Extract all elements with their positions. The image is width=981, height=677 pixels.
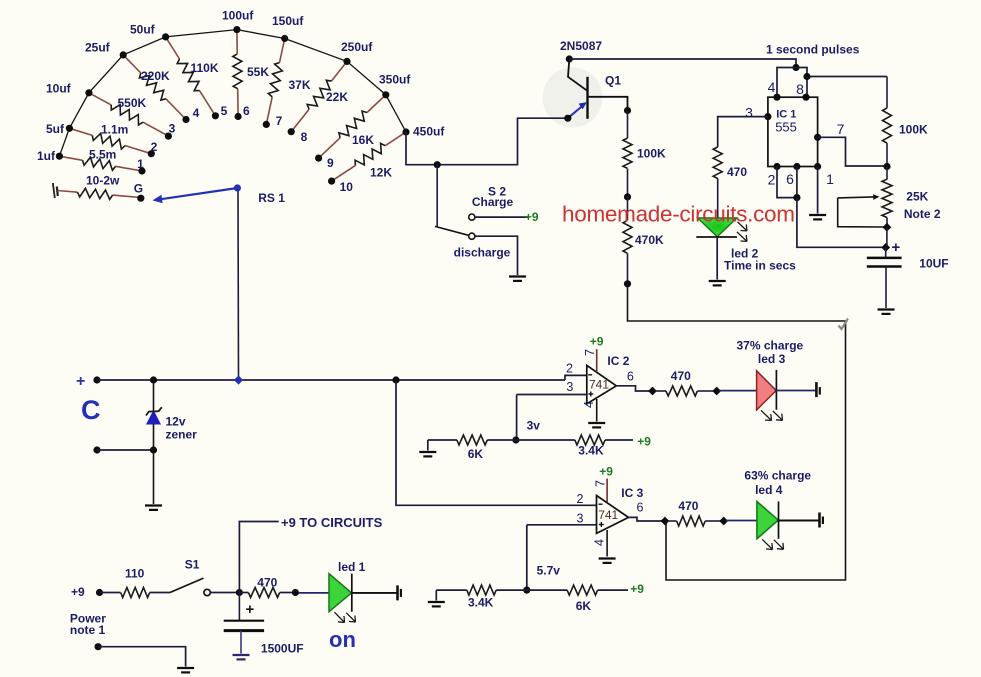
- svg-text:7: 7: [583, 349, 597, 356]
- resistor 470K: [623, 197, 664, 284]
- pin 4: [768, 79, 781, 101]
- node 150uf tap: [281, 35, 288, 42]
- resistor 110: [100, 567, 171, 598]
- node led4 anode: [719, 517, 728, 526]
- svg-text:6: 6: [243, 104, 250, 118]
- svg-text:+: +: [892, 239, 901, 256]
- node 3: [165, 122, 176, 140]
- node 5: [212, 104, 228, 119]
- svg-text:37K: 37K: [289, 78, 311, 92]
- resistor 12K (range 10): [332, 132, 406, 181]
- svg-text:2: 2: [768, 172, 776, 188]
- node 10uf tap: [85, 89, 92, 96]
- node IC3 branch: [392, 376, 399, 383]
- svg-text:470K: 470K: [635, 233, 664, 247]
- svg-text:C: C: [81, 395, 101, 425]
- resistor 6K (5.7v divider): [527, 582, 645, 613]
- svg-text:6: 6: [786, 171, 794, 187]
- label 150uf: [272, 14, 304, 28]
- resistor 470 (led2): [713, 147, 747, 218]
- node 350uf tap: [382, 91, 389, 98]
- label 50uf: [130, 23, 156, 37]
- wire IC3 pin3: [527, 525, 597, 590]
- wire pin 3 to 470: [718, 117, 768, 147]
- label 250uf: [341, 40, 373, 54]
- node power note terminal: [95, 643, 102, 650]
- svg-text:1.1m: 1.1m: [101, 123, 128, 137]
- wire pin 2 tie: [777, 167, 797, 198]
- node 25uf tap: [120, 51, 127, 58]
- label 63% charge: [744, 469, 811, 498]
- node C minus: [93, 446, 100, 453]
- node 10: [328, 178, 353, 195]
- resistor 1.1m (range 2): [69, 123, 151, 154]
- label on: [329, 627, 356, 652]
- node 4: [182, 106, 199, 123]
- node led1 anode: [292, 589, 299, 596]
- svg-text:250uf: 250uf: [341, 40, 373, 54]
- svg-text:note 1: note 1: [70, 623, 106, 637]
- svg-text:25K: 25K: [906, 190, 928, 204]
- node zener top: [150, 376, 157, 383]
- label led 2: [724, 247, 796, 273]
- wire C rail to IC3 pin2: [396, 380, 597, 505]
- wire pin 1 to ground: [817, 167, 819, 214]
- node C plus: [93, 376, 100, 383]
- resistor 16K (range 9): [319, 95, 386, 158]
- svg-text:RS 1: RS 1: [258, 191, 285, 205]
- node 25K bottom: [883, 223, 892, 232]
- svg-text:555: 555: [775, 120, 797, 135]
- wire led3 cathode: [776, 390, 815, 392]
- label 25uf: [85, 41, 111, 55]
- resistor 100K (timing): [883, 77, 929, 167]
- resistor 10-2w: [58, 174, 142, 200]
- label +9 power: [71, 585, 85, 599]
- led 3: [757, 370, 783, 421]
- label 1uf: [37, 149, 56, 163]
- label 37% charge: [737, 339, 804, 367]
- wire supply to pin 4: [777, 68, 796, 98]
- node G: [134, 182, 145, 202]
- svg-text:3.4K: 3.4K: [578, 444, 604, 458]
- node 1uf tap: [56, 153, 63, 160]
- node +9 circuits junction: [236, 589, 243, 596]
- pin 2: [768, 163, 781, 188]
- pin 6: [786, 163, 800, 187]
- svg-text:55K: 55K: [247, 65, 269, 79]
- node 7: [263, 114, 283, 128]
- wire S1 to junction: [211, 592, 237, 594]
- switch S1: [170, 558, 210, 596]
- svg-text:550K: 550K: [118, 96, 147, 110]
- node 9: [315, 155, 334, 171]
- ground pin 1: [809, 215, 826, 219]
- node 8: [288, 128, 308, 144]
- label 450uf: [413, 125, 445, 139]
- pin 7: [814, 121, 845, 141]
- transistor Q1: [568, 59, 628, 119]
- svg-text:63% charge: 63% charge: [744, 469, 811, 483]
- svg-text:+9: +9: [525, 210, 539, 224]
- node S2 junction: [434, 161, 441, 168]
- svg-text:S1: S1: [185, 558, 200, 572]
- wire 3.4K to ground: [435, 590, 437, 600]
- node 50uf tap: [162, 33, 169, 40]
- node led3 anode: [712, 387, 721, 396]
- node 1: [137, 157, 145, 175]
- node IC2 out: [648, 387, 657, 396]
- wire 470K bottom loop to IC3 output: [628, 284, 846, 580]
- node 5.7v: [523, 587, 530, 594]
- svg-text:3: 3: [169, 122, 176, 136]
- wire to led1: [299, 592, 330, 594]
- svg-text:16K: 16K: [352, 133, 374, 147]
- svg-text:470: 470: [671, 369, 691, 383]
- svg-text:450uf: 450uf: [413, 125, 445, 139]
- svg-text:50uf: 50uf: [130, 23, 156, 37]
- svg-text:led 3: led 3: [758, 352, 786, 366]
- watermark homemade-circuits.com: [562, 202, 795, 227]
- resistor 470 (led4): [668, 499, 721, 526]
- svg-text:110K: 110K: [191, 61, 219, 75]
- stray check mark: [839, 319, 849, 330]
- svg-text:3v: 3v: [527, 419, 541, 433]
- svg-text:37% charge: 37% charge: [737, 339, 804, 353]
- svg-text:470: 470: [257, 576, 277, 590]
- node 6: [235, 104, 250, 120]
- wire +9 to circuits: [239, 515, 382, 593]
- svg-text:zener: zener: [166, 428, 198, 442]
- svg-text:22K: 22K: [326, 90, 348, 104]
- resistor 110K (range 5): [166, 37, 219, 116]
- node Q1 base top of 100K: [624, 107, 631, 114]
- termination led3: [816, 382, 819, 397]
- node 100K/470K junction: [624, 193, 631, 200]
- wire supply to pin 8 and 100K: [796, 68, 887, 98]
- svg-text:4: 4: [193, 106, 200, 120]
- resistor 550K (range 3): [89, 93, 168, 136]
- svg-text:on: on: [329, 627, 356, 652]
- resistor 22K (range 8): [291, 61, 348, 131]
- svg-text:8: 8: [796, 81, 804, 97]
- wire to led4: [726, 520, 757, 522]
- node 3v: [512, 436, 519, 443]
- node 2: [148, 140, 158, 157]
- svg-text:10: 10: [340, 180, 354, 194]
- svg-text:470: 470: [678, 499, 698, 513]
- node zener bottom: [150, 446, 157, 453]
- wire to led3: [719, 390, 757, 392]
- node RS1 rail junction: [234, 375, 243, 384]
- svg-text:8: 8: [301, 130, 308, 144]
- op-amp-ic IC 1 555 box: [768, 97, 818, 166]
- svg-text:6: 6: [637, 501, 644, 515]
- svg-text:Q1: Q1: [605, 74, 621, 88]
- node 5uf tap: [66, 125, 73, 132]
- label Power note 1: [70, 612, 106, 638]
- svg-text:100K: 100K: [637, 147, 666, 161]
- resistor 3.4K (3v divider): [516, 435, 651, 458]
- svg-text:Time in secs: Time in secs: [724, 259, 796, 273]
- wire 6K to ground: [427, 440, 429, 451]
- svg-text:+: +: [76, 373, 85, 390]
- svg-text:G: G: [134, 182, 143, 196]
- svg-text:led 4: led 4: [755, 483, 783, 497]
- wire led1 cathode: [352, 592, 397, 594]
- pin 7 IC3 supply: [594, 465, 614, 503]
- node Q1 collector: [566, 55, 573, 62]
- svg-text:4: 4: [582, 401, 596, 408]
- op-amp IC 3 741: [577, 486, 644, 533]
- svg-text:12K: 12K: [370, 166, 392, 180]
- svg-text:5.5m: 5.5m: [89, 148, 116, 162]
- svg-text:3: 3: [577, 512, 584, 526]
- ground IC3: [599, 559, 616, 563]
- label 3v: [527, 419, 541, 433]
- svg-text:1: 1: [826, 171, 834, 187]
- svg-text:2: 2: [577, 492, 584, 506]
- node 450uf tap: [402, 128, 409, 135]
- label 10uf: [46, 82, 72, 96]
- svg-text:1: 1: [137, 157, 144, 171]
- svg-text:IC 3: IC 3: [621, 486, 643, 500]
- label 350uf: [379, 73, 411, 87]
- label 1 second pulses: [766, 43, 860, 57]
- wire charge contact to +9: [475, 210, 539, 224]
- node IC3 out: [661, 517, 670, 526]
- node timing cap plus: [881, 239, 900, 256]
- svg-text:+9: +9: [637, 435, 651, 449]
- svg-text:discharge: discharge: [454, 246, 511, 260]
- pin 8: [796, 81, 809, 101]
- wire 25K to cap: [886, 227, 888, 247]
- zener diode 12v: [146, 380, 197, 450]
- capacitor 10UF: [867, 248, 949, 309]
- wire S2 pole: [436, 165, 438, 226]
- pin 3: [745, 105, 771, 121]
- svg-text:10uf: 10uf: [46, 82, 72, 96]
- capacitor 1500UF: [224, 593, 304, 656]
- switch S 2: [435, 185, 513, 260]
- node +9 input: [96, 589, 103, 596]
- termination led1: [398, 585, 401, 600]
- resistor 3.4K (5.7v divider): [436, 585, 527, 609]
- wire C minus: [97, 449, 154, 451]
- wire 450uf tap to S2 junction: [406, 132, 437, 165]
- potentiometer 25K: [838, 167, 941, 228]
- pin 4 IC2 ground: [582, 399, 597, 422]
- rotary switch RS 1 wiper: [153, 184, 286, 205]
- svg-text:10UF: 10UF: [919, 257, 948, 271]
- svg-text:5: 5: [221, 104, 228, 118]
- svg-text:10-2w: 10-2w: [86, 174, 120, 188]
- label led 1: [338, 560, 366, 574]
- label 5uf: [46, 122, 65, 136]
- wire led4 cathode: [779, 520, 819, 522]
- svg-text:+: +: [246, 601, 255, 618]
- svg-text:4: 4: [592, 539, 606, 546]
- wire discharge contact to ground: [475, 236, 518, 275]
- svg-text:+9: +9: [599, 465, 613, 479]
- svg-text:3: 3: [745, 105, 753, 121]
- svg-text:9: 9: [327, 156, 334, 170]
- label plus C: [76, 373, 101, 425]
- svg-text:5.7v: 5.7v: [537, 564, 561, 578]
- svg-text:12v: 12v: [166, 415, 186, 429]
- node 100uf tap: [233, 26, 240, 33]
- wire RS1 pole to C+ rail: [237, 189, 240, 380]
- svg-text:6: 6: [627, 370, 634, 384]
- svg-text:6K: 6K: [576, 599, 592, 613]
- svg-text:IC 2: IC 2: [607, 354, 629, 368]
- wire note1 to ground: [98, 647, 186, 667]
- ground 10UF: [878, 310, 895, 314]
- svg-text:1uf: 1uf: [37, 149, 56, 163]
- svg-text:25uf: 25uf: [85, 41, 111, 55]
- ground led2: [709, 281, 726, 285]
- svg-text:+9: +9: [630, 582, 644, 596]
- svg-text:2: 2: [151, 140, 158, 154]
- svg-text:led 1: led 1: [338, 560, 366, 574]
- resistor 470 (led3): [655, 369, 714, 396]
- wire IC3 output: [629, 501, 663, 522]
- transistor body halo: [543, 68, 603, 128]
- resistor 5.5m (range 1): [59, 148, 142, 172]
- svg-text:+9: +9: [590, 335, 604, 349]
- resistor 6K (3v divider): [428, 435, 516, 461]
- wire S2 junction to Q1 emitter: [437, 118, 566, 165]
- svg-text:150uf: 150uf: [272, 14, 304, 28]
- wire arc connecting capacitor range taps: [59, 30, 406, 157]
- svg-text:1500UF: 1500UF: [261, 642, 304, 656]
- wire IC2 pin3: [517, 395, 587, 441]
- svg-text:4: 4: [768, 79, 776, 95]
- ground IC2: [588, 423, 605, 427]
- svg-text:7: 7: [594, 480, 608, 487]
- label 100uf: [222, 9, 254, 23]
- svg-text:5uf: 5uf: [46, 122, 65, 136]
- svg-text:7: 7: [276, 114, 283, 128]
- node pin8 rail: [803, 73, 810, 80]
- resistor 100K (Q1 base upper): [623, 111, 666, 197]
- svg-text:350uf: 350uf: [379, 73, 411, 87]
- svg-text:homemade-circuits.com: homemade-circuits.com: [562, 202, 795, 227]
- node 555 supply: [792, 64, 799, 71]
- ground 1500UF: [233, 655, 250, 659]
- svg-text:220K: 220K: [141, 69, 170, 83]
- wire led2 cathode to ground: [716, 237, 718, 280]
- led 2: [696, 218, 747, 241]
- svg-text:+9: +9: [71, 585, 85, 599]
- svg-text:100uf: 100uf: [222, 9, 254, 23]
- led 1: [329, 574, 356, 623]
- wire IC2 output: [616, 370, 650, 392]
- node Q1 emitter: [564, 115, 571, 122]
- svg-text:1 second pulses: 1 second pulses: [766, 43, 860, 57]
- ground 6K: [419, 452, 436, 456]
- ground discharge: [509, 277, 526, 281]
- resistor 55K (range 6): [233, 30, 270, 117]
- pin 1: [814, 163, 834, 187]
- svg-text:100K: 100K: [899, 123, 928, 137]
- svg-text:2: 2: [566, 362, 573, 376]
- svg-text:3: 3: [566, 380, 573, 394]
- resistor 470 (led1): [239, 576, 292, 598]
- wire pins 2-6 to timing cap: [797, 198, 884, 248]
- wire pin 6 tie: [796, 167, 798, 198]
- node 250uf tap: [343, 58, 350, 65]
- pin 4 IC3 ground: [592, 530, 607, 557]
- svg-text:2N5087: 2N5087: [560, 39, 602, 53]
- label 2N5087: [560, 39, 602, 53]
- node 470K bottom: [624, 280, 631, 287]
- pin 7 IC2 supply: [583, 335, 604, 373]
- resistor 220K (range 4): [123, 55, 186, 120]
- capacitor probe mark at 10-2w input: [53, 183, 58, 198]
- svg-text:+9 TO CIRCUITS: +9 TO CIRCUITS: [281, 515, 383, 530]
- wire pin 7 to divider: [818, 137, 885, 166]
- node 100K/25K junction: [883, 163, 890, 170]
- svg-text:741: 741: [589, 378, 609, 392]
- op-amp IC 2 741: [566, 354, 630, 404]
- svg-text:110: 110: [125, 567, 145, 581]
- svg-text:7: 7: [837, 121, 845, 137]
- svg-text:3.4K: 3.4K: [468, 596, 494, 610]
- svg-text:6K: 6K: [468, 447, 484, 461]
- ground zener: [145, 506, 162, 510]
- ground note1: [177, 668, 194, 672]
- label 5.7v: [537, 564, 561, 578]
- svg-text:741: 741: [598, 508, 618, 522]
- wire C+ rail: [97, 375, 587, 380]
- svg-text:Charge: Charge: [472, 195, 514, 209]
- led 4: [757, 501, 784, 549]
- resistor 37K (range 7): [266, 39, 311, 125]
- wire zener to ground: [153, 450, 155, 504]
- svg-text:Note 2: Note 2: [904, 207, 941, 221]
- ground 3.4K: [428, 602, 445, 606]
- svg-text:470: 470: [727, 165, 747, 179]
- wire Q1 collector to 555 supply: [569, 59, 796, 68]
- termination led4: [820, 513, 823, 528]
- node pins 2-6: [793, 194, 800, 201]
